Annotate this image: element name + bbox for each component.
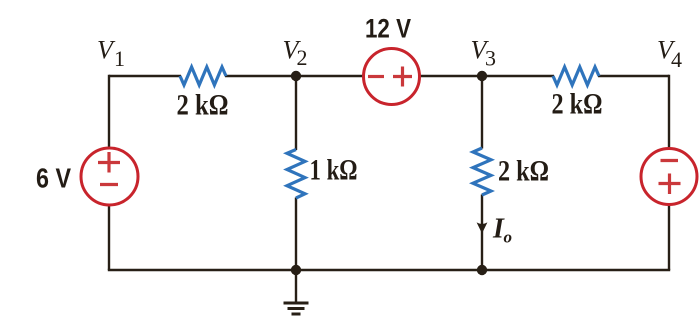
wire V2 branch lower [295, 198, 297, 271]
wire right branch upper [668, 75, 670, 148]
wire V3 branch upper [481, 76, 483, 149]
voltage source VS3 right circle [641, 149, 697, 205]
VS3 plus sign [659, 174, 681, 195]
svg-text:6 V: 6 V [36, 163, 71, 194]
VS1 minus sign [100, 183, 118, 186]
svg-text:1 kΩ: 1 kΩ [310, 155, 358, 187]
svg-text:3: 3 [485, 46, 496, 71]
svg-text:2 kΩ: 2 kΩ [498, 156, 549, 188]
wire V2 branch upper [295, 76, 297, 150]
wire left branch upper [108, 75, 110, 148]
wire top rail between R2 and V4 corner [598, 75, 669, 77]
wire left branch lower [108, 205, 110, 270]
VS3 minus sign [661, 159, 679, 162]
node dot ground junction [291, 265, 301, 275]
svg-text:12 V: 12 V [365, 14, 411, 44]
wire bottom rail [108, 269, 670, 271]
resistor R3 1kOhm vertical at V2 [287, 150, 305, 199]
voltage source VS2 12V circle [364, 49, 420, 105]
resistor R2 2kOhm horizontal between V3 and V4 [553, 67, 599, 85]
svg-text:2 kΩ: 2 kΩ [177, 90, 229, 122]
node dot V3 bottom [477, 265, 487, 275]
wire top rail between R1 and 12V source [225, 75, 363, 77]
VS2 minus sign [368, 75, 384, 78]
svg-text:4: 4 [671, 47, 682, 72]
node dot V3 top [477, 71, 487, 81]
VS2 plus sign [393, 67, 412, 87]
svg-text:1: 1 [114, 46, 125, 71]
wire right branch lower [668, 205, 670, 270]
VS1 plus sign [98, 152, 120, 173]
node dot V2 top [291, 71, 301, 81]
svg-text:2: 2 [297, 45, 308, 70]
svg-text:o: o [504, 228, 513, 247]
wire V3 branch lower [481, 195, 483, 271]
resistor R1 2kOhm horizontal between V1 and V2 [180, 67, 226, 85]
voltage source VS1 6V circle [81, 148, 138, 205]
wire top rail between 12V source and V3 [420, 75, 554, 77]
svg-text:2 kΩ: 2 kΩ [552, 89, 603, 121]
current arrow Io [477, 222, 488, 233]
resistor R4 2kOhm vertical at V3 [473, 148, 491, 195]
wire top rail left of 12V source [109, 75, 181, 77]
ground symbol [284, 270, 309, 314]
